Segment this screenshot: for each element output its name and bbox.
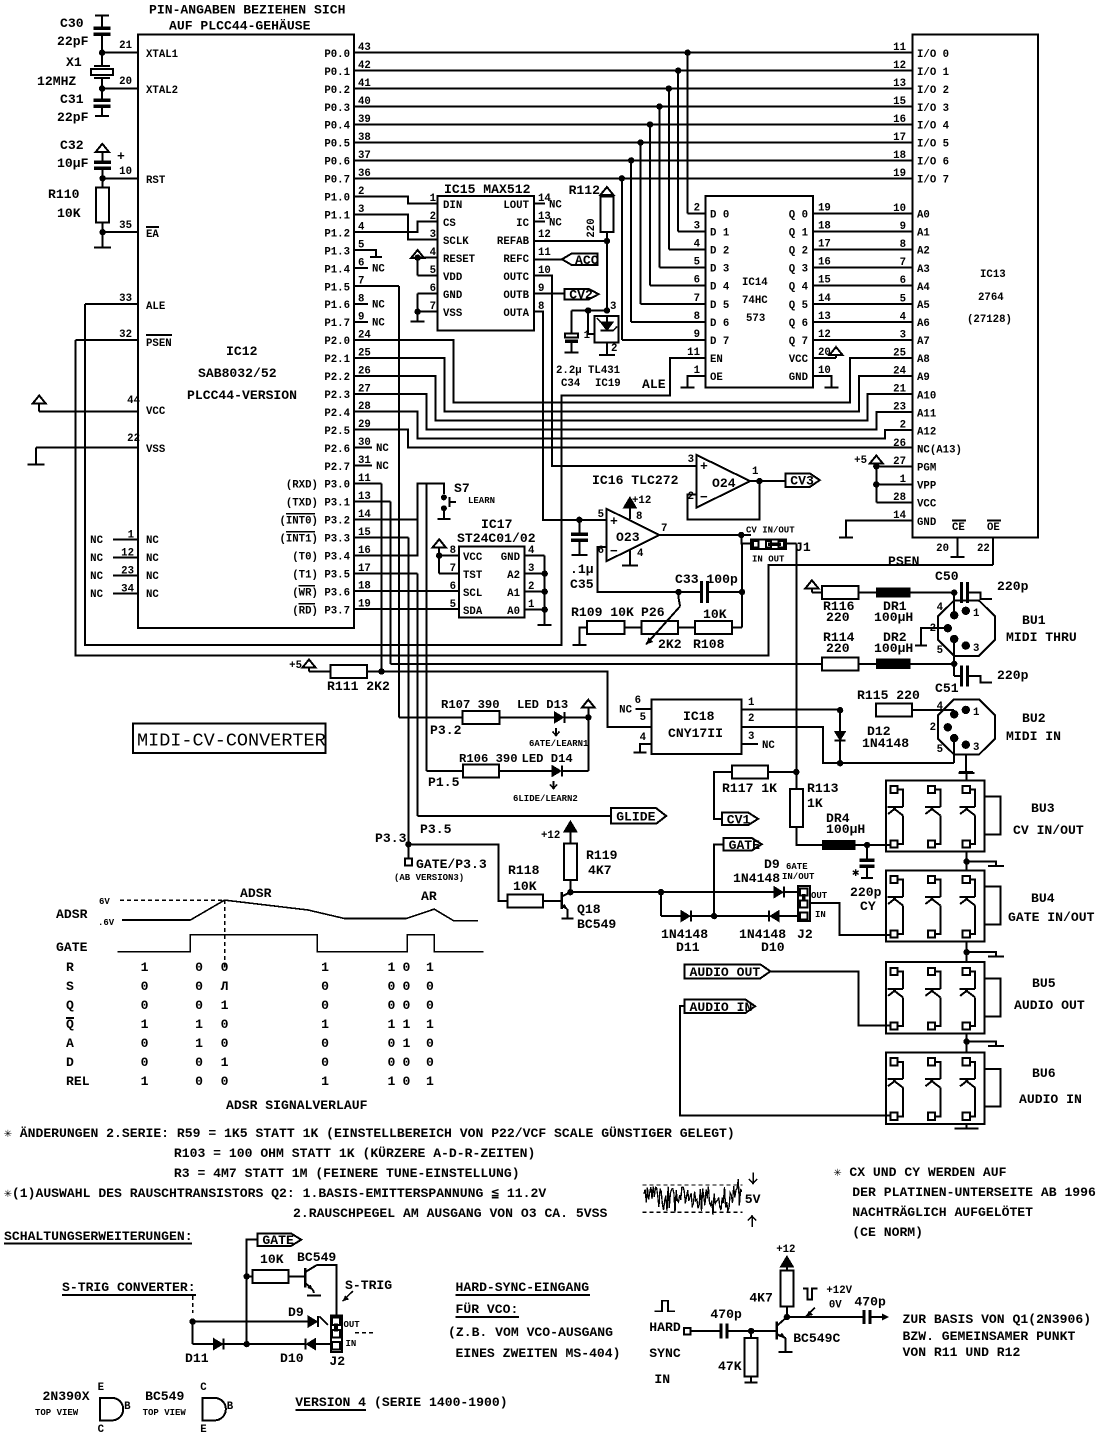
label P1.5 [428,775,460,790]
svg-text:GATE IN/OUT: GATE IN/OUT [1008,910,1095,925]
label 10K strig [260,1252,284,1267]
svg-text:+: + [117,149,125,164]
svg-text:Q: Q [66,998,74,1013]
svg-text:C32: C32 [60,138,84,153]
svg-text:P1.6: P1.6 [324,300,350,312]
svg-text:+12: +12 [776,1244,795,1256]
svg-text:C35: C35 [570,577,594,592]
svg-text:IC12: IC12 [226,344,258,359]
svg-text:VCC: VCC [146,406,166,418]
ground BU6 bottom [955,1124,979,1129]
label HARD SYNC IN [649,1320,681,1387]
svg-text:I/O 7: I/O 7 [917,175,949,187]
inductor DR2 [874,630,913,669]
svg-text:1: 1 [221,998,229,1013]
svg-text:12MHZ: 12MHZ [37,74,76,89]
svg-text:D 3: D 3 [710,264,729,276]
svg-text:ACC: ACC [575,253,599,268]
wire BU2 pin5 [953,738,955,763]
wire C34 to TL431 [571,307,607,313]
svg-text:J2: J2 [329,1354,345,1369]
svg-text:(WR) P3.6: (WR) P3.6 [292,587,350,599]
wire strig out line [189,1318,308,1324]
svg-text:Q 3: Q 3 [789,264,808,276]
node EA [99,229,105,235]
svg-text:0: 0 [387,998,395,1013]
svg-text:A7: A7 [917,336,930,348]
svg-text:BU3: BU3 [1031,801,1055,816]
svg-text:NC: NC [372,300,385,312]
svg-text:0: 0 [321,1055,329,1070]
node P3.3 [405,841,411,847]
svg-text:D 4: D 4 [710,282,730,294]
svg-text:MIDI THRU: MIDI THRU [1006,630,1077,645]
svg-text:P0.0: P0.0 [324,49,350,61]
svg-text:2764: 2764 [978,292,1004,304]
wire PSEN route [75,340,993,656]
svg-text:0: 0 [387,1055,395,1070]
svg-text:Q 6: Q 6 [789,318,808,330]
svg-text:NC: NC [90,535,103,547]
wire hardsync pad [684,1328,721,1335]
power +5 arrow IC13 [854,455,913,503]
svg-text:(T1) P3.5: (T1) P3.5 [292,569,350,581]
wire IC13 OE pin22 [977,538,993,566]
wire P1.1 to IC15 SCLK [354,214,438,239]
label ACC tag [562,253,599,268]
wire O24 output to CV3 [750,478,785,484]
svg-text:I/O 0: I/O 0 [917,49,949,61]
resistor R112 [569,183,614,238]
power +5 R111 [289,660,331,673]
svg-text:P1.5: P1.5 [428,775,460,790]
svg-text:IC: IC [516,218,529,230]
diode D9 [733,857,784,898]
svg-text:220: 220 [586,218,598,237]
svg-text:Л: Л [221,979,229,994]
svg-text:R113: R113 [807,781,839,796]
svg-text:Q: Q [66,1017,74,1032]
wire IC12 XTAL2 pin20 [102,76,178,97]
wire strig lower line [193,1322,214,1345]
svg-text:R3 = 4M7 STATT 1M (FEINERE TUN: R3 = 4M7 STATT 1M (FEINERE TUNE-EINSTELL… [174,1166,520,1181]
svg-text:0: 0 [141,998,149,1013]
svg-text:1: 1 [387,1074,395,1089]
wire R113 to DR4 [796,827,822,845]
svg-text:C50: C50 [935,569,959,584]
svg-text:35: 35 [119,220,132,232]
svg-text:ADSR SIGNALVERLAUF: ADSR SIGNALVERLAUF [226,1098,368,1113]
svg-text:P1.2: P1.2 [324,228,350,240]
label AUDIO OUT tag [685,964,771,979]
svg-text:0: 0 [221,1036,229,1051]
op IC14 box [706,196,814,387]
svg-text:AUDIO OUT: AUDIO OUT [1014,998,1085,1013]
svg-text:13: 13 [893,78,906,90]
wire Q18 collector line [570,889,774,895]
pin P2.7 NC [354,461,389,473]
svg-text:7: 7 [900,257,906,269]
svg-text:AUDIO OUT: AUDIO OUT [690,965,761,980]
resistor R108 [678,607,742,652]
svg-text:0: 0 [321,979,329,994]
svg-text:10: 10 [119,166,132,178]
svg-text:R: R [66,960,74,975]
capacitor C34 [556,311,582,391]
svg-text:5: 5 [900,293,906,305]
label S-TRIG CONVERTER [62,1280,196,1295]
svg-text:ADSR: ADSR [240,886,272,901]
svg-text:J2: J2 [797,927,813,942]
note CX CY line3 [852,1204,1033,1220]
diode D9 strig [288,1305,328,1327]
pin P1.6 NC [354,300,385,312]
svg-text:100µH: 100µH [874,641,913,656]
svg-text:+5: +5 [289,660,302,672]
svg-text:−: − [700,490,708,505]
power VCC arrow R112 [600,187,613,195]
svg-text:A2: A2 [917,246,930,258]
svg-text:D10: D10 [761,940,785,955]
svg-text:−: − [610,544,618,559]
svg-text:573: 573 [746,313,765,325]
ground R110 [94,232,111,247]
svg-text:S: S [66,979,74,994]
svg-text:0: 0 [195,960,203,975]
wire P3.0 to IC18 [382,672,652,727]
svg-text:A6: A6 [917,318,930,330]
note VON R11 [903,1345,1021,1360]
svg-text:1: 1 [141,960,149,975]
svg-text:OE: OE [987,522,1000,534]
svg-text:R119: R119 [586,848,618,863]
wire D10 to J2 [779,915,800,917]
svg-text:A0: A0 [507,606,520,618]
svg-text:DIN: DIN [443,200,462,212]
svg-text:0: 0 [426,979,434,994]
svg-text:0: 0 [221,960,229,975]
svg-text:P2.6: P2.6 [324,444,350,456]
svg-text:4: 4 [640,732,647,744]
svg-text:D: D [66,1055,74,1070]
svg-text:CNY17II: CNY17II [668,726,723,741]
wire D9 to J2 [784,891,800,893]
wire GATE tag to D10 line [714,844,724,916]
svg-text:NC: NC [90,553,103,565]
pin IC18 pin6 NC [619,695,651,717]
svg-text:GATE: GATE [729,838,761,853]
svg-text:D11: D11 [676,940,700,955]
label BU1 [1006,613,1077,645]
svg-text:C33 100p: C33 100p [675,572,738,587]
resistor R111 [327,665,390,694]
svg-text:7: 7 [661,523,667,535]
svg-text:VCC: VCC [789,354,809,366]
op TL431 IC19 [588,316,621,390]
switch S7 [441,481,495,511]
wire IC12 VSS pin22 [28,433,166,465]
power +12 arrow R119 [541,821,577,844]
svg-text:0: 0 [426,998,434,1013]
svg-text:3: 3 [748,731,754,743]
connector J2 strig [329,1315,360,1369]
svg-text:1: 1 [221,1055,229,1070]
svg-text:1: 1 [426,1074,434,1089]
connector J2 [782,862,828,942]
svg-text:2K2: 2K2 [658,637,682,652]
svg-text:NC: NC [146,589,159,601]
svg-text:GND: GND [443,290,462,302]
op IC18 labels [668,709,723,741]
wire P3.6 to SCL [354,590,459,592]
label R107 [441,698,500,712]
svg-text:Q 7: Q 7 [789,336,808,348]
node TL431 ref [604,301,617,314]
svg-text:IN: IN [815,910,826,920]
wire P3.5 vertical [354,573,611,816]
wire R114 to DR2 [858,663,875,665]
svg-text:BU4: BU4 [1031,891,1055,906]
svg-text:C31: C31 [60,92,84,107]
power VCC arrow R116 [805,580,822,592]
svg-text:220p: 220p [850,885,882,900]
svg-text:GND: GND [917,517,936,529]
svg-text:1: 1 [752,466,758,478]
svg-text:0: 0 [141,1055,149,1070]
svg-text:P0.4: P0.4 [324,121,350,133]
svg-text:+: + [700,459,708,474]
op IC14 pin labels [687,202,831,384]
svg-text:A11: A11 [917,408,936,420]
svg-text:SCLK: SCLK [443,236,469,248]
svg-text:PIN-ANGABEN BEZIEHEN SICH: PIN-ANGABEN BEZIEHEN SICH [149,3,345,18]
svg-text:0: 0 [402,998,410,1013]
svg-text:23: 23 [121,566,134,578]
svg-text:0V: 0V [829,1300,842,1312]
svg-text:19: 19 [893,168,906,180]
svg-text:44: 44 [127,395,140,407]
svg-text:6: 6 [635,695,641,707]
op IC12 pin labels [279,42,371,617]
label P3.2 [430,723,462,738]
node D12 bottom [837,760,843,766]
svg-text:CE: CE [952,522,965,534]
svg-text:+5: +5 [854,455,867,467]
svg-text:P0.2: P0.2 [324,85,350,97]
svg-text:6ATE/LEARN1: 6ATE/LEARN1 [529,739,589,749]
wire D10 to J2 strig [315,1343,330,1345]
wire R119 to Q18 collector [569,880,571,892]
svg-text:AR: AR [421,889,437,904]
ground IC15 GND VSS [411,294,438,322]
svg-text:220p: 220p [997,579,1029,594]
op IC17 pin labels [450,545,535,618]
svg-text:GATE/P3.3: GATE/P3.3 [416,857,487,872]
capacitor C50 [935,569,1029,603]
wire D11 to D10 strig [224,1341,306,1347]
svg-text:(INT1) P3.3: (INT1) P3.3 [279,534,350,546]
svg-text:20: 20 [936,543,949,555]
wire P3.7 to SDA [354,608,459,610]
chart ADSR labels [56,886,437,955]
svg-text:0: 0 [387,979,395,994]
resistor R109 [571,605,634,634]
svg-text:OE: OE [710,372,723,384]
svg-text:TL431: TL431 [588,365,620,377]
svg-text:P2.0: P2.0 [324,336,350,348]
svg-text:NC: NC [619,705,632,717]
svg-text:10K: 10K [260,1252,284,1267]
transistor BC549 strig [297,1250,336,1290]
resistor 10K strig [247,1270,289,1283]
chart ADSR curve [122,900,478,921]
wire O23 output [659,532,751,538]
svg-text:20: 20 [119,76,132,88]
note aenderungen line2 [174,1145,535,1161]
svg-text:22pF: 22pF [57,110,89,125]
svg-text:GND: GND [789,372,808,384]
svg-text:A9: A9 [917,372,930,384]
svg-text:10K: 10K [513,879,537,894]
svg-text:BC549C: BC549C [793,1331,840,1346]
svg-text:.6V: .6V [98,918,115,928]
diode D10 [739,911,786,955]
svg-text:R112: R112 [569,183,601,198]
svg-text:220: 220 [826,641,850,656]
wire J2 middle to BU4 [810,903,892,935]
note EINES ZWEITEN [456,1346,621,1361]
svg-text:1: 1 [973,608,979,620]
svg-text:1: 1 [195,1036,203,1051]
svg-text:(TXD) P3.1: (TXD) P3.1 [286,498,350,510]
resistor 4K7 hardsync [749,1271,793,1307]
wire J2 strig dashed [355,1332,373,1334]
svg-text:11: 11 [687,347,700,359]
ground S7 [437,511,450,519]
node strig 10K junction [244,1273,250,1279]
label GLIDE tag [611,808,666,824]
svg-text:S7: S7 [454,481,470,496]
svg-text:ALE: ALE [146,301,165,313]
ground BU3 top [959,773,975,780]
svg-text:LED D14: LED D14 [522,752,573,766]
pin IC12 NC pins 1,12,23,34 [90,530,159,602]
svg-text:P0.1: P0.1 [324,67,350,79]
wire P1.2 to IC15 CS [354,222,438,233]
svg-text:S-TRIG CONVERTER:: S-TRIG CONVERTER: [62,1280,196,1295]
svg-text:2: 2 [930,722,936,734]
svg-text:R118: R118 [508,863,540,878]
svg-text:2: 2 [694,202,700,214]
svg-text:R115 220: R115 220 [857,688,920,703]
svg-text:33: 33 [119,293,132,305]
svg-text:A: A [66,1036,74,1051]
symbol BC549 top view [143,1382,234,1436]
svg-text:NC: NC [549,218,562,230]
svg-text:VERSION 4: VERSION 4 [295,1395,366,1410]
svg-text:ZUR BASIS VON Q1(2N3906): ZUR BASIS VON Q1(2N3906) [903,1312,1092,1327]
svg-text:C: C [98,1424,105,1436]
svg-text:3: 3 [688,454,694,466]
wire DR4 to BU3 [856,842,892,848]
wire P3.4 to S7 [354,484,444,556]
svg-text:34: 34 [121,584,134,596]
capacitor 470p out [854,1295,886,1325]
connector BU3 [886,780,1084,851]
wire P1.5 vertical [354,286,462,717]
svg-text:OUTC: OUTC [503,272,529,284]
svg-text:10K: 10K [57,206,81,221]
svg-text:4: 4 [937,602,944,614]
wire AUDIO IN to BU6 [680,1006,892,1115]
svg-text:7: 7 [694,293,700,305]
svg-text:1: 1 [141,1017,149,1032]
svg-text:REL: REL [66,1074,90,1089]
svg-text:R117 1K: R117 1K [722,781,777,796]
svg-text:OUTB: OUTB [503,290,529,302]
svg-text:AUDIO IN: AUDIO IN [690,1000,753,1015]
resistor R117 [722,766,777,797]
svg-text:P0.5: P0.5 [324,139,350,151]
svg-text:D11: D11 [185,1351,209,1366]
wire O23 feedback [598,547,682,595]
svg-text:5V: 5V [745,1192,761,1207]
svg-text:3: 3 [694,220,700,232]
svg-text:NACHTRÄGLICH AUFGELÖTET: NACHTRÄGLICH AUFGELÖTET [852,1204,1033,1220]
wire 10K to BC549 [289,1275,306,1277]
wire TL431 pin1 [584,311,595,343]
svg-text:3: 3 [610,301,616,313]
svg-text:SDA: SDA [463,606,483,618]
svg-text:D 1: D 1 [710,227,729,239]
node XTAL2 [99,85,105,91]
svg-text:✳ CX UND CY WERDEN AUF: ✳ CX UND CY WERDEN AUF [834,1165,1007,1180]
label GATE tag [724,838,762,853]
ground IC14 pin1 OE [680,376,705,387]
svg-text:P2.2: P2.2 [324,372,350,384]
svg-text:6: 6 [694,275,700,287]
pin P2.6 NC [354,443,389,455]
svg-text:0: 0 [221,1017,229,1032]
svg-text:D 0: D 0 [710,209,729,221]
resistor R116 [822,586,858,625]
svg-text:P26: P26 [641,605,665,620]
svg-text:P1.3: P1.3 [324,246,350,258]
label GATE/LEARN1 [529,739,589,749]
svg-text:A1: A1 [917,228,930,240]
svg-text:CY: CY [860,899,876,914]
label P3.3 [375,831,407,846]
svg-text:P2.7: P2.7 [324,462,350,474]
inductor DR4 [822,811,865,850]
label FUER VCO [456,1301,520,1317]
label PSEN net [888,554,919,569]
wire OUTC to O24 [534,276,697,466]
svg-text:NC(A13): NC(A13) [917,445,962,457]
svg-text:220p: 220p [997,668,1029,683]
svg-text:IN OUT: IN OUT [752,555,785,565]
svg-text:6V: 6V [99,897,110,907]
svg-text:P0.7: P0.7 [324,175,350,187]
capacitor C51 [935,664,1029,696]
wire AUDIO OUT to BU5 [770,971,891,1025]
op IC15 title [444,182,531,197]
svg-text:VON R11 UND R12: VON R11 UND R12 [903,1345,1021,1360]
label MIDI-CV-CONVERTER [133,724,326,753]
svg-text:4K7: 4K7 [588,863,612,878]
svg-text:1: 1 [321,1017,329,1032]
wire O24 feedback [688,481,760,520]
